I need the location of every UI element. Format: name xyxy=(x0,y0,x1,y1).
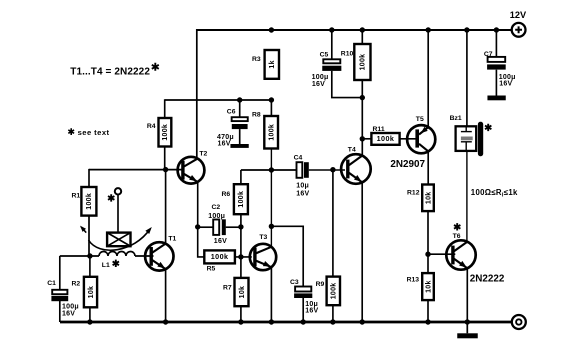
svg-text:Bz1: Bz1 xyxy=(450,115,462,122)
star marker after note xyxy=(152,63,159,71)
svg-text:100μ: 100μ xyxy=(312,74,329,81)
resistor R3 xyxy=(252,50,279,79)
wire: R8 top lead xyxy=(270,100,272,116)
svg-text:100k: 100k xyxy=(331,283,338,300)
svg-text:16V: 16V xyxy=(312,81,325,88)
wire: R12 bottom to R13 top through T6 base node xyxy=(427,211,429,273)
wire: C2 left lead xyxy=(198,226,214,228)
resistor R9 xyxy=(316,277,340,306)
transistor T4 xyxy=(341,146,371,184)
svg-text:T1: T1 xyxy=(168,236,176,243)
junction dot R11/T4 collector xyxy=(360,136,365,141)
transistor T1 xyxy=(145,236,176,271)
resistor R2 xyxy=(72,277,98,308)
transistor T6 xyxy=(446,233,475,270)
svg-text:100k: 100k xyxy=(86,193,93,210)
wire: R10 top lead xyxy=(361,29,363,44)
wire: R2 top lead xyxy=(89,256,91,277)
junction dot T2 emitter / C2 xyxy=(195,224,200,229)
svg-text:10μ: 10μ xyxy=(296,182,309,189)
svg-text:R3: R3 xyxy=(252,56,261,63)
0V terminal xyxy=(512,315,526,329)
svg-text:R11: R11 xyxy=(373,126,385,133)
svg-text:100k: 100k xyxy=(360,54,367,71)
svg-text:see text: see text xyxy=(78,128,110,137)
ground symbol at C6 xyxy=(230,144,248,148)
svg-text:16V: 16V xyxy=(62,310,75,317)
wire: R6 top to C4 xyxy=(241,169,297,171)
junction dot R4/T1/T2 base xyxy=(163,167,168,172)
svg-text:T5: T5 xyxy=(416,116,424,123)
resistor R5 xyxy=(204,250,235,272)
svg-text:R6: R6 xyxy=(222,191,231,198)
wire: R10 bottom to T4 collector xyxy=(361,80,363,156)
junction dot L1 node xyxy=(87,253,92,258)
wire: C6 bottom lead xyxy=(239,129,241,144)
svg-text:10k: 10k xyxy=(425,280,432,293)
resistor R13 xyxy=(407,273,434,300)
wire: T2 emitter down to R5 xyxy=(198,182,205,257)
wire: 0V bottom ground rail xyxy=(60,321,512,324)
wire: L1 to T1 base xyxy=(135,255,154,257)
svg-text:C1: C1 xyxy=(47,280,56,287)
wire: C1 bottom lead to ground rail xyxy=(59,301,61,322)
svg-text:16V: 16V xyxy=(218,140,231,147)
capacitor C3 xyxy=(290,279,318,315)
svg-text:T3: T3 xyxy=(259,234,267,241)
wire: L1 node to C1 xyxy=(60,255,99,257)
svg-text:R4: R4 xyxy=(147,123,156,130)
svg-text:1k: 1k xyxy=(269,60,276,68)
wire: R11 left lead xyxy=(362,138,371,140)
wire: C7 top lead xyxy=(495,29,497,57)
wire: R5 to T3 base xyxy=(235,256,252,258)
wire: R4 top lead xyxy=(164,99,166,118)
wire: R7 bottom lead xyxy=(240,306,242,322)
svg-text:R2: R2 xyxy=(72,280,81,287)
transistor T5 (PNP 2N2907) xyxy=(407,116,435,153)
wire: T6 emitter to ground rail xyxy=(466,269,468,323)
wire: T3 collector branch to C3 xyxy=(271,226,303,286)
svg-text:100k: 100k xyxy=(162,124,169,141)
junction dot C5/R10/T4 collector xyxy=(360,95,365,100)
note see text xyxy=(78,128,110,137)
svg-text:10k: 10k xyxy=(425,192,432,205)
junction dots on +12V rail xyxy=(269,27,274,32)
wire: +12V top supply rail xyxy=(197,29,512,31)
svg-text:2N2907: 2N2907 xyxy=(390,159,425,170)
resistor R4 xyxy=(147,118,171,147)
junction dots on T3 base column xyxy=(238,224,243,229)
ground symbol at C7 xyxy=(487,96,505,101)
resistor R12 xyxy=(407,185,434,212)
wire: T2 base horizontal xyxy=(89,169,182,171)
svg-text:R10: R10 xyxy=(341,50,354,57)
svg-text:R8: R8 xyxy=(252,112,261,119)
svg-text:16V: 16V xyxy=(296,191,309,198)
svg-text:C4: C4 xyxy=(294,155,303,162)
junction dots on C4 wire xyxy=(269,167,274,172)
wire: T4 emitter to ground xyxy=(361,183,363,323)
buzzer Bz1 xyxy=(450,115,484,156)
svg-text:R13: R13 xyxy=(407,277,420,284)
wire: R6 bottom through C2/T3-base junctions to R7 top xyxy=(240,214,242,278)
inductor L1 xyxy=(99,252,135,257)
wire: C7 bottom lead xyxy=(495,70,497,96)
svg-text:C6: C6 xyxy=(227,108,236,115)
svg-text:10k: 10k xyxy=(239,286,246,299)
wire: C2 right lead xyxy=(226,226,241,228)
wire: T6 base horizontal xyxy=(428,253,455,255)
wire: C5 top lead xyxy=(331,29,333,59)
star marker at pickup terminal xyxy=(108,194,114,201)
svg-text:100k: 100k xyxy=(268,124,275,141)
wire: R1 top lead xyxy=(88,169,90,187)
wire: R4 bottom lead to T2 base node xyxy=(164,147,166,170)
svg-text:16V: 16V xyxy=(305,308,318,315)
wire: C3 bottom lead xyxy=(302,298,304,322)
capacitor C2 xyxy=(208,204,227,245)
svg-text:R7: R7 xyxy=(223,284,232,291)
wire: Bz1 top lead to +12V rail xyxy=(466,29,468,126)
svg-text:C7: C7 xyxy=(484,51,493,58)
wire: R6 top lead xyxy=(240,170,242,184)
svg-text:2N2222: 2N2222 xyxy=(470,273,505,284)
svg-text:R9: R9 xyxy=(316,281,325,288)
+12V terminal xyxy=(510,10,527,37)
junction dots on y=100 node xyxy=(237,97,242,102)
svg-text:100k: 100k xyxy=(211,252,229,261)
resistor R8 xyxy=(252,112,278,149)
svg-text:L1: L1 xyxy=(102,262,110,269)
wire: T2 collector to +12V rail xyxy=(196,29,198,158)
svg-text:T1...T4 = 2N2222: T1...T4 = 2N2222 xyxy=(70,67,150,78)
wire: pickup contact stem xyxy=(117,194,119,232)
svg-text:C2: C2 xyxy=(212,204,221,211)
capacitor C1 xyxy=(47,280,79,318)
wire: T5 collector to R12 xyxy=(427,151,429,185)
resistor R11 xyxy=(371,126,399,145)
wire: Bz1 bottom to T6 collector xyxy=(466,151,468,242)
wire: R1 bottom lead to L1 node xyxy=(88,216,90,257)
wire: C1 top lead xyxy=(59,256,61,290)
wire: C5 bottom lead to T4 collector node xyxy=(332,71,363,98)
junction dot T6 base xyxy=(425,252,430,257)
wire: R9 top lead from C4 wire xyxy=(332,170,334,277)
capacitor C6 xyxy=(217,108,248,147)
wire: C4 to T4 base xyxy=(309,169,345,171)
svg-text:R12: R12 xyxy=(407,189,420,196)
svg-text:100μ: 100μ xyxy=(208,213,225,220)
pickup crossed-box contact xyxy=(107,233,130,247)
svg-text:16V: 16V xyxy=(499,81,512,88)
small arrow near R1 xyxy=(81,227,86,233)
ground symbol xyxy=(457,333,478,338)
wire: C6 top lead xyxy=(239,100,241,117)
star marker at see text xyxy=(68,128,74,135)
star marker at T6 xyxy=(454,223,460,230)
svg-text:100k: 100k xyxy=(238,191,245,208)
svg-text:100k: 100k xyxy=(377,134,395,143)
resistor R1 xyxy=(72,187,97,216)
svg-text:T2: T2 xyxy=(199,151,207,158)
wire: T5 emitter to +12V rail xyxy=(427,29,429,127)
wire: R13 bottom lead xyxy=(427,300,429,322)
junction dots on ground rail xyxy=(87,319,92,324)
wire: R8 bottom / T3 collector column xyxy=(270,149,272,247)
capacitor C5 xyxy=(312,51,342,88)
star marker at Bz1 xyxy=(485,124,491,131)
transistor T3 xyxy=(250,234,276,270)
note T1...T4 = 2N2222 xyxy=(70,67,150,78)
svg-text:16V: 16V xyxy=(214,238,227,245)
wire: T1 collector up to T2 base node xyxy=(165,170,167,244)
resistor R6 xyxy=(222,184,248,214)
junction dot T3 collector / C3 branch xyxy=(269,224,274,229)
svg-text:R1: R1 xyxy=(72,193,81,200)
wire: R11 right lead to T5 base xyxy=(400,138,416,140)
svg-text:10k: 10k xyxy=(88,286,95,299)
terminal circle above pickup contact xyxy=(115,188,121,194)
wire: T3 emitter to ground xyxy=(270,267,272,322)
svg-text:C3: C3 xyxy=(290,279,299,286)
svg-text:C5: C5 xyxy=(320,51,329,58)
transistor T2 xyxy=(178,151,208,184)
wire: T1 emitter to ground xyxy=(165,269,167,322)
capacitor C4 xyxy=(294,155,310,198)
resistor R7 xyxy=(223,278,249,306)
svg-text:R5: R5 xyxy=(207,265,216,272)
wire: ground symbol stub xyxy=(466,322,468,333)
capacitor C7 xyxy=(484,51,516,88)
svg-text:T6: T6 xyxy=(453,233,461,240)
resistor R10 xyxy=(341,44,371,80)
wire: R2 bottom lead xyxy=(89,307,91,322)
wire: R9 bottom lead xyxy=(332,305,334,322)
wire: node R4/C6/R3 horizontal at y=100 xyxy=(165,99,272,101)
motion arc with arrowhead xyxy=(89,229,151,250)
svg-text:T4: T4 xyxy=(348,146,356,153)
svg-text:12V: 12V xyxy=(510,10,527,20)
